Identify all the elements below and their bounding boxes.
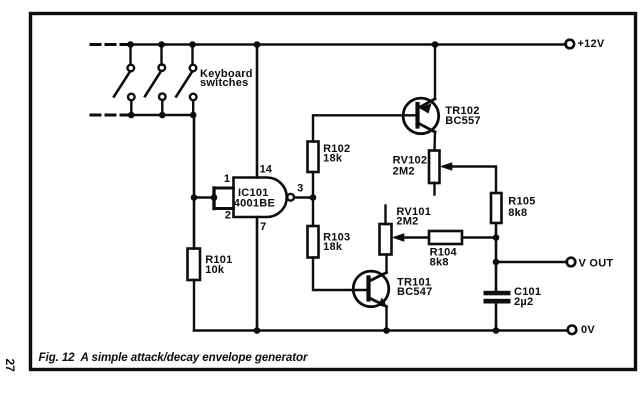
- TR102 emitter arrow (PNP): [421, 104, 431, 113]
- capacitor C101: [484, 291, 511, 304]
- svg-text:4001BE: 4001BE: [234, 197, 275, 209]
- wire R103 to TR101 base: [313, 258, 367, 291]
- svg-text:BC547: BC547: [397, 286, 433, 298]
- wire 0V rail: [194, 329, 568, 332]
- wire RV102 bottom stub: [433, 183, 435, 195]
- node S3 bottom corner: [190, 112, 197, 119]
- transistor Q1 TR101: [353, 271, 389, 307]
- node S3 top: [189, 41, 196, 48]
- svg-text:V OUT: V OUT: [579, 257, 614, 269]
- node gate input: [211, 194, 218, 201]
- svg-text:switches: switches: [200, 77, 248, 89]
- node S1 bottom: [128, 112, 135, 119]
- svg-text:2: 2: [225, 209, 231, 221]
- node keyboard drop: [191, 194, 198, 201]
- terminal V OUT: [567, 258, 576, 267]
- wire R102 top to TR102 base: [313, 115, 416, 141]
- potentiometer RV102: [429, 151, 440, 184]
- wire gate output pin 3: [294, 196, 313, 198]
- svg-text:18k: 18k: [323, 241, 343, 253]
- svg-text:14: 14: [260, 164, 273, 176]
- wire TR101 emitter to 0V rail: [385, 307, 387, 331]
- svg-text:8k8: 8k8: [430, 257, 449, 269]
- RV102 wiper arrow: [441, 163, 452, 170]
- resistor R104: [429, 231, 462, 244]
- wire +12V top rail: [124, 43, 566, 45]
- node gate output: [310, 194, 317, 201]
- IC101 output bubble: [287, 194, 294, 201]
- node R104-R105: [493, 234, 500, 241]
- svg-text:18k: 18k: [323, 153, 343, 165]
- wire RV101 top stub: [384, 206, 386, 225]
- node S1 top: [127, 41, 134, 48]
- svg-text:2M2: 2M2: [396, 216, 418, 228]
- node S2 bottom: [159, 112, 166, 119]
- svg-text:0V: 0V: [581, 324, 595, 336]
- TR101 emitter arrow: [379, 299, 387, 308]
- wire keyboard bottom rail: [124, 114, 194, 116]
- svg-text:BC557: BC557: [445, 115, 481, 127]
- RV101 wiper arrow: [393, 234, 404, 241]
- wire R104 to node: [462, 236, 496, 238]
- terminal 0V: [568, 326, 577, 335]
- wire R105 to C101: [495, 223, 498, 291]
- resistor R103: [308, 226, 319, 258]
- svg-text:27: 27: [3, 359, 17, 373]
- wire TR101 collector to RV101: [385, 255, 387, 273]
- switch S2: [145, 45, 166, 116]
- wire pin 1 stub: [214, 187, 234, 190]
- wire C101 to 0V rail: [495, 304, 498, 331]
- node TR102 emitter rail: [432, 41, 439, 48]
- svg-text:3: 3: [297, 183, 303, 195]
- resistor R102: [308, 142, 319, 173]
- transistor Q2 TR102: [403, 98, 439, 134]
- resistor R101: [188, 249, 201, 281]
- terminal +12V: [566, 40, 575, 49]
- node C101 0V: [493, 327, 500, 334]
- node TR101 emitter 0V: [383, 327, 390, 334]
- node pin7 0V: [254, 327, 261, 334]
- node V OUT: [493, 259, 500, 266]
- svg-text:7: 7: [260, 221, 266, 233]
- node pin14 rail: [254, 41, 261, 48]
- wire pin 14 drop from +12V rail: [256, 45, 259, 178]
- wire R101 to 0V rail: [193, 280, 195, 331]
- wire input node to gate: [194, 196, 214, 198]
- wire keyboard drop to R101: [193, 115, 196, 249]
- wire gate input connector: [212, 188, 215, 209]
- svg-text:+12V: +12V: [578, 38, 605, 50]
- svg-text:8k8: 8k8: [508, 207, 527, 219]
- wire TR102 collector to RV102: [433, 132, 436, 151]
- potentiometer RV101: [380, 224, 392, 255]
- switch S3: [176, 45, 196, 116]
- svg-text:10k: 10k: [205, 264, 225, 276]
- wire RV101 wiper from R104: [400, 236, 429, 238]
- svg-text:1: 1: [224, 173, 230, 185]
- wire TR102 emitter to +12V rail: [434, 45, 436, 99]
- wire keyboard bottom rail dashed left: [91, 114, 127, 117]
- node S2 top: [158, 41, 165, 48]
- svg-text:2µ2: 2µ2: [514, 296, 533, 308]
- switch S1: [114, 45, 135, 116]
- svg-text:2M2: 2M2: [393, 166, 415, 178]
- wire pin 7 drop to 0V rail: [256, 217, 259, 331]
- wire R102 to R103: [312, 172, 314, 226]
- resistor R105: [491, 193, 502, 223]
- op-amp U1 IC101 gate body: [234, 178, 287, 218]
- wire pin 2 stub: [214, 207, 234, 210]
- wire V OUT: [496, 261, 567, 263]
- wire RV102 wiper from R105 branch: [449, 167, 496, 194]
- wire top rail dashed left: [91, 43, 127, 46]
